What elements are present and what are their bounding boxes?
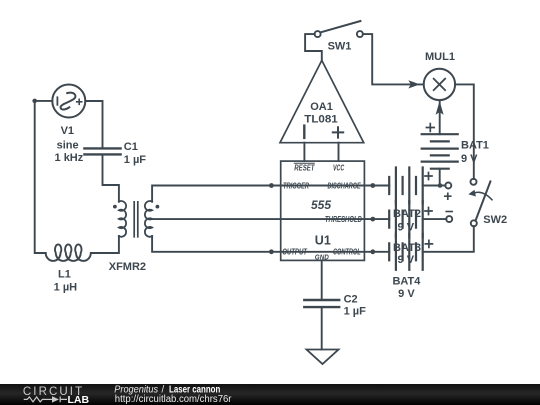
battery BAT2: [389, 168, 432, 204]
terminal plus: [445, 183, 451, 200]
svg-text:TL081: TL081: [304, 114, 338, 126]
wire: [455, 84, 474, 178]
svg-text:9 V: 9 V: [398, 254, 415, 266]
wire: [423, 226, 474, 252]
svg-text:MUL1: MUL1: [425, 51, 455, 63]
switch SW1: [315, 21, 363, 37]
svg-text:OUTPUT: OUTPUT: [282, 247, 308, 256]
battery BAT4: [389, 234, 432, 270]
footer bar: [0, 384, 540, 405]
svg-text:SW2: SW2: [483, 214, 507, 226]
svg-text:XFMR2: XFMR2: [109, 261, 146, 273]
multiplier MUL1: [424, 69, 455, 100]
wire: [305, 34, 322, 60]
svg-text:CONTROL: CONTROL: [333, 247, 361, 256]
inductor L1: [46, 244, 91, 260]
svg-text:1 µF: 1 µF: [124, 154, 147, 166]
svg-text:C2: C2: [344, 294, 358, 306]
battery BAT3: [389, 201, 432, 237]
svg-text:V1: V1: [61, 125, 74, 137]
wire: [423, 218, 447, 220]
wire: [363, 34, 424, 84]
wire: [103, 155, 119, 201]
svg-text:9 V: 9 V: [461, 153, 478, 165]
switch SW2: [468, 179, 492, 227]
svg-text:SW1: SW1: [328, 41, 352, 53]
svg-text:TRIGGER: TRIGGER: [283, 181, 309, 190]
capacitor C2: [304, 300, 339, 307]
svg-text:OA1: OA1: [310, 101, 333, 113]
node A junction dot: [32, 99, 37, 104]
junction dot: [438, 183, 443, 188]
capacitor C1: [84, 148, 120, 154]
wire: [303, 143, 305, 161]
wire: [338, 143, 340, 161]
svg-text:LAB: LAB: [68, 394, 90, 405]
svg-text:BAT4: BAT4: [392, 276, 421, 288]
wire: [35, 100, 53, 102]
wire: [91, 236, 119, 253]
svg-text:1 µF: 1 µF: [344, 306, 367, 318]
wire: [152, 236, 389, 252]
terminal minus: [446, 212, 452, 223]
svg-text:9 V: 9 V: [398, 288, 415, 300]
wire: [321, 260, 323, 299]
svg-text:9 V: 9 V: [398, 222, 415, 234]
svg-text:RESET: RESET: [294, 163, 315, 172]
pin junction dots: [269, 183, 375, 254]
svg-text:555: 555: [311, 198, 331, 212]
svg-text:VCC: VCC: [333, 163, 344, 172]
svg-text:DISCHARGE: DISCHARGE: [328, 181, 362, 190]
wire: [152, 218, 389, 220]
svg-text:1 µH: 1 µH: [54, 282, 78, 294]
ground: [307, 350, 339, 365]
wire: [35, 101, 46, 253]
op-amp OA1: [280, 60, 364, 142]
555 box U1: [281, 161, 365, 260]
svg-text:U1: U1: [315, 234, 331, 248]
svg-text:sine: sine: [57, 139, 79, 151]
wire: [423, 185, 446, 187]
wire: [152, 186, 389, 202]
svg-text:C1: C1: [124, 141, 138, 153]
wire: [321, 307, 323, 349]
svg-text:L1: L1: [58, 269, 71, 281]
wire: [85, 101, 102, 148]
voltage source V1: [52, 85, 85, 118]
transformer XFMR2: [113, 201, 159, 237]
svg-text:BAT1: BAT1: [461, 139, 489, 151]
svg-text:1 kHz: 1 kHz: [55, 152, 84, 164]
arrowhead: [408, 80, 420, 88]
svg-text:THRESHOLD: THRESHOLD: [325, 215, 362, 224]
CircuitLab logo: [23, 386, 90, 405]
battery BAT1: [422, 101, 458, 186]
footer text: [114, 384, 232, 405]
svg-text:http://circuitlab.com/chrs76r: http://circuitlab.com/chrs76r: [115, 394, 232, 405]
